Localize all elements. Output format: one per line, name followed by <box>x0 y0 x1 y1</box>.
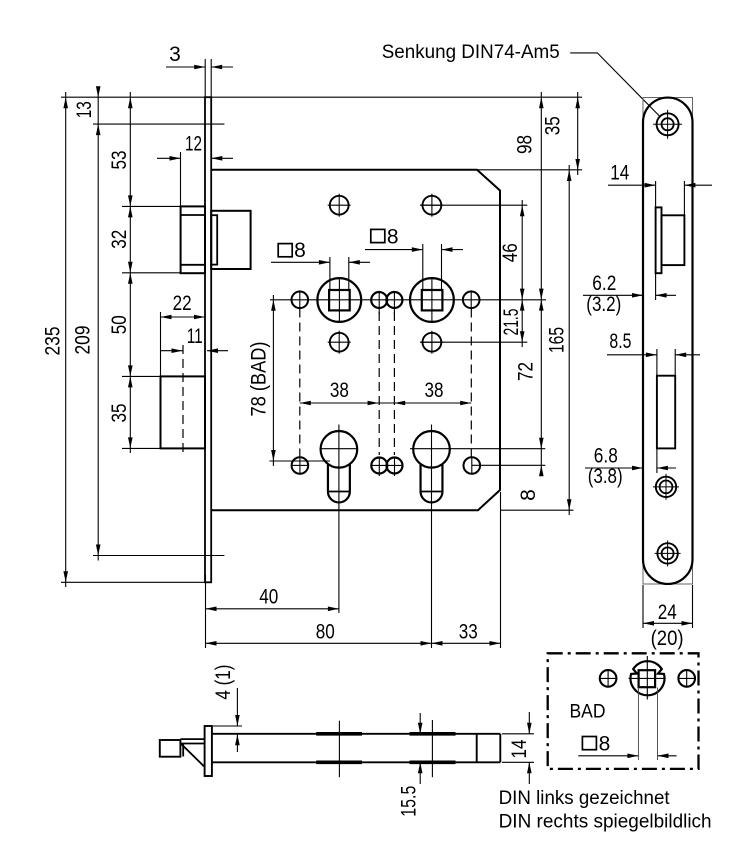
svg-text:8.5: 8.5 <box>609 330 631 353</box>
latch slot side view <box>656 207 662 273</box>
ext line 12 left <box>180 152 182 206</box>
ext line 209 bottom <box>93 555 224 557</box>
faceplate Stulp main view <box>205 97 211 582</box>
svg-text:209: 209 <box>72 326 95 355</box>
faceplate rounded outline <box>643 98 693 584</box>
ext line 13 bottom <box>93 123 224 125</box>
svg-text:11: 11 <box>187 325 203 348</box>
svg-text:DIN rechts spiegelbildlich: DIN rechts spiegelbildlich <box>499 811 712 833</box>
screw hole bottom <box>655 540 681 566</box>
small hole lower left <box>292 457 309 475</box>
double hole pair lower <box>371 457 403 477</box>
latch head side view <box>662 215 685 265</box>
dim 12 <box>157 133 233 161</box>
small hole upper right <box>463 290 480 309</box>
dim 235 <box>42 92 69 587</box>
ext stubs above faceplate <box>205 59 211 97</box>
svg-text:14: 14 <box>508 739 531 758</box>
WC hole centerlines <box>629 656 666 700</box>
WC follower hole BAD <box>631 661 665 695</box>
svg-text:38: 38 <box>425 379 444 402</box>
ext line latch bottom <box>122 272 181 274</box>
dim 11 <box>161 325 228 353</box>
handle follower right square <box>422 290 443 310</box>
svg-text:165: 165 <box>546 327 569 353</box>
ext line deadbolt bottom <box>122 447 161 449</box>
dim 8.5 <box>607 330 700 376</box>
lock case outline <box>211 170 500 510</box>
latch tip bottom view <box>160 740 181 757</box>
BAD small circle right <box>678 669 696 687</box>
svg-text:14: 14 <box>610 161 629 184</box>
svg-text:(3.2): (3.2) <box>586 293 621 316</box>
ext line bottom dims left <box>205 575 207 648</box>
handle follower left square <box>329 290 350 310</box>
follower row centerline <box>270 299 546 301</box>
dim 3 faceplate thickness <box>166 43 233 69</box>
svg-text:13: 13 <box>73 101 96 118</box>
handle follower right circle <box>410 278 454 322</box>
cylinder row centerline <box>320 448 546 450</box>
dim 13 <box>73 86 101 560</box>
dim 40 <box>206 586 339 612</box>
svg-text:4 (1): 4 (1) <box>212 665 235 700</box>
svg-text:6.2: 6.2 <box>592 272 616 295</box>
dashed column left <box>299 309 301 457</box>
bottom view case bar <box>212 734 500 763</box>
dim 4 (1) <box>212 665 242 752</box>
svg-text:35: 35 <box>108 404 131 423</box>
boss strips <box>316 734 455 763</box>
svg-text:32: 32 <box>108 230 131 249</box>
svg-text:80: 80 <box>316 621 335 644</box>
cylinder axis left <box>338 425 340 614</box>
dim 14 bottom view <box>502 712 534 784</box>
label BAD <box>570 701 606 723</box>
upper screw post hole right <box>420 194 527 217</box>
ext line faceplate top <box>61 96 582 98</box>
dim 46 and 21.5 <box>499 200 525 347</box>
svg-text:8: 8 <box>387 226 399 249</box>
BAD detail dash-dot frame <box>548 653 699 769</box>
svg-text:50: 50 <box>108 315 131 334</box>
dim 6.8 (3.8) <box>585 445 676 489</box>
handle follower left circle <box>317 278 361 322</box>
svg-text:(3.8): (3.8) <box>588 465 623 488</box>
dim 22 <box>161 292 206 319</box>
svg-text:33: 33 <box>459 621 478 644</box>
svg-text:8: 8 <box>517 489 540 501</box>
latch bolt head <box>181 206 205 273</box>
cylinder axis bottom view <box>431 720 433 777</box>
dim 78 BAD <box>248 295 276 466</box>
svg-text:8: 8 <box>599 733 611 756</box>
dim 24 (20) <box>643 585 693 650</box>
svg-text:BAD: BAD <box>570 701 606 723</box>
svg-text:40: 40 <box>259 586 278 609</box>
dim 6.2 (3.2) <box>583 272 676 316</box>
faceplate square-end variant <box>643 98 693 585</box>
leader line <box>570 53 660 117</box>
ext line 22 <box>160 312 162 376</box>
svg-text:21.5: 21.5 <box>500 309 523 336</box>
bad-row extension left <box>270 460 331 462</box>
note DIN rechts <box>499 811 712 833</box>
svg-text:Senkung DIN74-Am5: Senkung DIN74-Am5 <box>382 41 560 63</box>
latch bolt tail box <box>211 211 250 269</box>
ext line bottom dims right <box>500 492 502 648</box>
upper screw post hole left <box>328 194 351 217</box>
dim 15.5 <box>398 713 423 817</box>
dim 35 top right <box>542 92 581 175</box>
svg-text:46: 46 <box>499 243 522 262</box>
bottom view faceplate bar <box>205 726 212 776</box>
dashed column mid-left <box>378 312 380 455</box>
cylinder axis right <box>431 425 433 649</box>
lower screw post hole right <box>420 331 527 354</box>
ext line deadbolt top <box>122 375 161 377</box>
svg-text:12: 12 <box>185 133 202 156</box>
profile cylinder hole right <box>413 431 450 502</box>
deadbolt <box>161 376 206 448</box>
double hole pair upper <box>371 291 402 314</box>
svg-text:DIN links gezeichnet: DIN links gezeichnet <box>499 787 671 809</box>
deadbolt centerline <box>182 345 184 452</box>
deadbolt slot side view <box>657 376 675 449</box>
wc-row extension right <box>472 464 546 466</box>
dim square8 BAD <box>578 688 676 761</box>
svg-text:78 (BAD): 78 (BAD) <box>248 342 271 417</box>
latch bevel bottom view <box>180 739 204 766</box>
dim 165 <box>546 165 572 515</box>
svg-text:72: 72 <box>515 362 538 381</box>
dim chain 53-32-50-35 <box>108 92 133 453</box>
follower left centerlines <box>330 257 349 322</box>
ext line 235 bottom <box>61 581 205 583</box>
BAD small circle left <box>599 669 617 687</box>
label Senkung DIN74-Am5 <box>382 41 560 63</box>
dim 80 and 33 <box>206 621 501 646</box>
dim square8 left <box>271 239 370 265</box>
svg-text:53: 53 <box>108 151 131 170</box>
dim 98 72 8 <box>514 92 544 501</box>
screw hole middle <box>653 474 679 500</box>
screw hole top <box>653 110 682 139</box>
note DIN links <box>499 787 671 809</box>
svg-text:235: 235 <box>42 327 65 356</box>
dim 14 side <box>608 161 712 215</box>
svg-text:3: 3 <box>169 43 181 66</box>
svg-text:8: 8 <box>294 239 306 262</box>
profile cylinder hole left <box>321 431 358 502</box>
svg-text:98: 98 <box>514 135 537 154</box>
follower axis bottom view <box>338 721 340 778</box>
WC follower square BAD <box>639 670 656 687</box>
dashed column mid-right <box>393 312 395 455</box>
svg-text:38: 38 <box>330 379 349 402</box>
svg-text:24: 24 <box>658 601 677 624</box>
ext line latch top <box>122 205 181 207</box>
dim 209 <box>72 326 101 556</box>
follower right centerlines <box>423 244 442 322</box>
ext line case top right <box>477 169 582 171</box>
dim 38 left and right <box>300 379 471 405</box>
svg-text:15.5: 15.5 <box>398 786 421 817</box>
dashed column right <box>470 309 472 457</box>
svg-text:35: 35 <box>542 116 565 135</box>
small hole lower right <box>464 457 481 475</box>
lower screw post hole left <box>328 331 351 354</box>
small hole upper left <box>292 290 309 309</box>
svg-text:(20): (20) <box>651 627 684 650</box>
ext line case bottom right <box>500 509 574 511</box>
svg-text:22: 22 <box>173 292 192 315</box>
dim square8 right <box>365 226 463 252</box>
